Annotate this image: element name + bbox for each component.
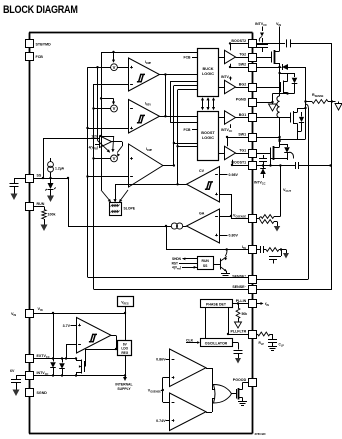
- svg-text:BG2: BG2: [239, 82, 246, 86]
- svg-text:0.74V: 0.74V: [156, 419, 166, 423]
- svg-text:LOGIC: LOGIC: [202, 72, 214, 76]
- svg-text:BLOCK DIAGRAM: BLOCK DIAGRAM: [3, 4, 78, 16]
- svg-text:PGOOD: PGOOD: [233, 378, 247, 382]
- svg-text:BUCK: BUCK: [203, 67, 214, 71]
- svg-text:1.2V: 1.2V: [91, 134, 99, 138]
- svg-text:STBYMD: STBYMD: [36, 42, 52, 46]
- svg-text:V: V: [113, 65, 116, 70]
- svg-text:INTERNAL: INTERNAL: [115, 383, 132, 387]
- svg-text:BOOST1: BOOST1: [231, 160, 246, 164]
- svg-text:V: V: [113, 156, 116, 161]
- svg-text:FCB: FCB: [36, 55, 44, 59]
- svg-text:SS: SS: [37, 174, 42, 178]
- svg-text:GA: GA: [199, 212, 205, 216]
- svg-text:RUN: RUN: [37, 202, 45, 206]
- svg-text:SGND: SGND: [37, 391, 48, 395]
- svg-text:SENSE–: SENSE–: [232, 284, 246, 289]
- svg-text:SLOPE: SLOPE: [124, 207, 136, 211]
- svg-text:100k: 100k: [48, 213, 56, 217]
- svg-text:FCB: FCB: [184, 56, 192, 60]
- svg-text:SUPPLY: SUPPLY: [117, 387, 131, 391]
- svg-text:0.86V: 0.86V: [156, 358, 166, 362]
- svg-text:V: V: [113, 106, 116, 111]
- svg-text:0.98V: 0.98V: [229, 173, 239, 177]
- svg-text:PLLIN: PLLIN: [236, 299, 247, 303]
- svg-text:BOOST2: BOOST2: [231, 39, 246, 43]
- svg-text:PHASE DET: PHASE DET: [206, 302, 227, 306]
- svg-text:3780 BD: 3780 BD: [255, 432, 266, 436]
- svg-text:SW1: SW1: [238, 132, 246, 136]
- svg-text:TG2: TG2: [239, 52, 246, 56]
- svg-text:SW2: SW2: [238, 62, 246, 66]
- svg-text:6V: 6V: [10, 369, 15, 373]
- svg-text:1.2µA: 1.2µA: [55, 167, 65, 171]
- svg-text:TG1: TG1: [239, 148, 246, 152]
- svg-text:RUN: RUN: [202, 259, 210, 263]
- svg-text:FCB: FCB: [184, 128, 192, 132]
- svg-text:SS: SS: [203, 264, 208, 268]
- svg-text:LOGIC: LOGIC: [202, 136, 214, 140]
- svg-text:CV: CV: [199, 169, 205, 173]
- svg-text:BG1: BG1: [239, 113, 246, 117]
- svg-text:50k: 50k: [242, 312, 248, 316]
- svg-text:OSCILLATOR: OSCILLATOR: [205, 342, 228, 346]
- svg-text:REG: REG: [121, 351, 128, 355]
- svg-text:PGND: PGND: [236, 97, 247, 101]
- svg-text:CLK: CLK: [186, 339, 194, 343]
- svg-text:BOOST: BOOST: [201, 131, 215, 135]
- svg-text:3.7V: 3.7V: [63, 324, 71, 328]
- svg-text:0.80V: 0.80V: [229, 234, 239, 238]
- svg-text:PLLFLTR: PLLFLTR: [230, 329, 246, 333]
